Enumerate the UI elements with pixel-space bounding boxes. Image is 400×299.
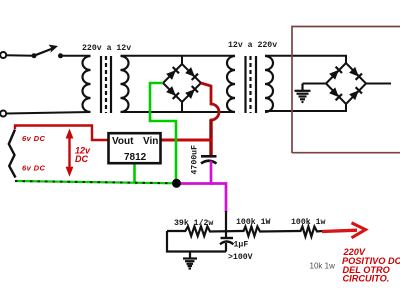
transformer T2 secondary winding — [265, 56, 273, 112]
wire (red loop to regulator) — [15, 126, 110, 141]
wire — [265, 56, 346, 63]
resistor R1 39k 1/2w — [167, 226, 242, 236]
transformer T1 core — [100, 56, 102, 113]
arrow 12v span — [66, 129, 74, 177]
svg-text:>100V: >100V — [228, 253, 253, 262]
diode D2 (BR1 top-right) — [185, 67, 198, 80]
regulator U1 7812 — [109, 133, 161, 163]
wire (black+green return line) — [15, 181, 176, 183]
bridge rectifier BR2 — [326, 63, 366, 104]
svg-text:CIRCUITO.: CIRCUITO. — [343, 274, 390, 284]
wire (green stub from regulator Vout/GND) — [133, 163, 136, 183]
svg-text:100k 1w: 100k 1w — [291, 217, 325, 227]
svg-text:1µF: 1µF — [234, 241, 249, 250]
wire — [6, 112, 90, 114]
svg-text:12v a 220v: 12v a 220v — [228, 41, 277, 50]
wire (dark red vertical into capacitor) — [209, 120, 212, 155]
transformer T2 primary winding — [227, 56, 235, 112]
svg-text:4700uF: 4700uF — [191, 145, 200, 175]
wire (magenta) — [177, 161, 211, 184]
diode D8 (BR2 bottom-right) — [349, 87, 362, 100]
ground GND2 — [183, 252, 197, 269]
resistor R2 100k 1W — [242, 227, 300, 237]
label 220V POSITIVO DC DEL OTRO CIRCUITO — [342, 247, 400, 284]
svg-text:39k 1/2w: 39k 1/2w — [174, 218, 213, 228]
terminal J2 — [0, 111, 6, 117]
transformer T1 secondary winding — [121, 56, 129, 112]
wire — [303, 83, 327, 85]
wire — [265, 104, 346, 111]
capacitor C2 1uF — [220, 238, 233, 252]
wire — [6, 54, 34, 57]
arrow output 220V — [322, 223, 366, 238]
ground GND1 — [295, 84, 311, 103]
terminal J1 — [0, 52, 6, 58]
svg-text:220v a 12v: 220v a 12v — [82, 44, 131, 53]
diode D7 (BR2 bottom-left) — [329, 87, 342, 100]
wire — [61, 55, 91, 57]
svg-text:7812: 7812 — [124, 152, 147, 163]
svg-text:10k 1w: 10k 1w — [310, 262, 336, 271]
svg-text:Vout: Vout — [112, 136, 134, 147]
svg-text:DC: DC — [75, 154, 88, 164]
wire — [121, 111, 236, 113]
diode D4 (BR1 bottom-right) — [185, 86, 198, 99]
wire (magenta) — [211, 184, 226, 213]
switch S1 — [32, 45, 64, 59]
diode D3 (BR1 bottom-left) — [166, 86, 179, 99]
diode D5 (BR2 top-left) — [329, 67, 342, 80]
svg-text:Vin: Vin — [143, 136, 158, 147]
wire (green from BR1 - corner) — [150, 83, 176, 183]
winding W1 (6v+6v zigzag) — [9, 130, 16, 178]
wire (left loop under R1) — [167, 231, 226, 252]
frame of other circuit (dark red) — [292, 27, 400, 154]
node junction — [172, 179, 181, 188]
diode D6 (BR2 top-right) — [349, 67, 362, 80]
svg-text:6v DC: 6v DC — [22, 134, 45, 143]
wire (red, BR1 + output to hop and down) — [201, 83, 219, 155]
diode D1 (BR1 top-left) — [166, 67, 179, 80]
wire — [121, 55, 236, 57]
svg-text:6v DC: 6v DC — [22, 164, 45, 173]
wire (red to Vin) — [161, 139, 212, 142]
svg-text:100k 1W: 100k 1W — [236, 217, 270, 227]
capacitor C1 4700uF — [201, 156, 217, 163]
bridge rectifier BR1 — [163, 56, 201, 112]
resistor R3 100k 1w — [299, 227, 322, 237]
capacitor C2 1uF lead — [225, 211, 227, 238]
wire — [366, 83, 391, 85]
transformer T2 core — [244, 56, 246, 113]
transformer T1 primary winding — [83, 56, 91, 112]
